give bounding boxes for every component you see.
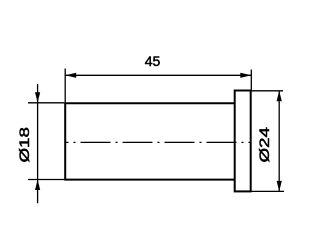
tube top edge — [64, 102, 235, 104]
svg-text:45: 45 — [145, 53, 161, 69]
dimension Ø18: top extension line — [28, 102, 64, 104]
dimension Ø24: dimension line (arrows inside) — [278, 91, 280, 192]
tube left edge — [64, 103, 66, 179]
svg-text:Ø24: Ø24 — [256, 127, 272, 162]
centerline (dash-dot) — [66, 141, 251, 143]
dimension 45: left arrowhead — [65, 73, 76, 78]
flange rectangle — [235, 91, 251, 192]
dimension Ø18: bottom extension line — [28, 179, 64, 181]
dimension Ø24: upper arrowhead pointing up — [277, 91, 282, 102]
dimension Ø24: top extension line — [251, 90, 283, 92]
dimension Ø24: bottom extension line — [246, 190, 284, 192]
dimension Ø18: dimension line (arrows outside) — [37, 84, 39, 203]
svg-text:Ø18: Ø18 — [16, 127, 32, 162]
dimension Ø18: lower arrowhead pointing up — [35, 180, 40, 191]
dimension 45: right arrowhead — [240, 73, 251, 78]
dimension Ø24: lower arrowhead pointing down — [277, 181, 282, 192]
dimension Ø18: upper arrowhead pointing down — [35, 92, 40, 103]
dimension 45: right extension line — [250, 70, 252, 92]
tube body (side view, thick object lines) — [64, 91, 251, 192]
dimension 45: left extension line — [64, 69, 66, 104]
tube bottom edge — [64, 179, 235, 181]
dimension 45: dimension line — [65, 74, 251, 76]
